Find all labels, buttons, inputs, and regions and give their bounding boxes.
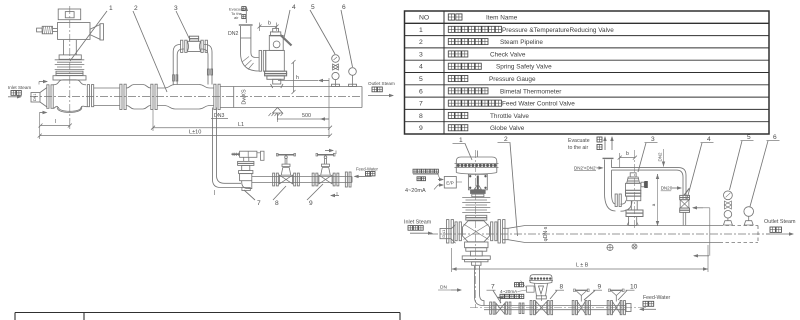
callouts 1-6 with leaders (right diagram) (453, 134, 780, 236)
feed-water label (left) (354, 166, 379, 178)
svg-text:DN2'×DN2': DN2'×DN2' (574, 165, 596, 170)
svg-text:b: b (268, 21, 271, 27)
svg-text:3: 3 (419, 51, 423, 58)
check valve (item 7 right) (490, 298, 524, 315)
h dimension (left) (292, 60, 300, 94)
feed control valve (item 8 right) (529, 275, 553, 315)
svg-text:Steam Pipeline: Steam Pipeline (500, 39, 543, 46)
a dimension (right) (651, 174, 659, 226)
svg-text:Pressure &TemperatureReducing: Pressure &TemperatureReducing Valve (502, 27, 614, 34)
PRV electric actuator with handwheel (item 1) (37, 9, 104, 40)
outlet steam label (right) (764, 219, 796, 236)
feed line end flange (right) (626, 304, 631, 312)
feed water drop pipe (right) (475, 266, 485, 306)
svg-text:DN3: DN3 (214, 113, 224, 119)
svg-text:5: 5 (747, 134, 751, 141)
svg-text:Feed Water Control Valve: Feed Water Control Valve (502, 101, 575, 108)
svg-text:7: 7 (491, 283, 495, 290)
svg-text:φDN·s: φDN·s (543, 226, 549, 241)
svg-text:6: 6 (773, 134, 777, 141)
throttle valve (item 4 right) (680, 188, 690, 225)
svg-text:8: 8 (275, 200, 279, 207)
flow direction symbols (left feed line) (325, 149, 339, 197)
svg-text:9: 9 (598, 283, 602, 290)
svg-text:b: b (626, 151, 629, 157)
globe valve (item 8, left) (273, 153, 300, 186)
svg-text:6: 6 (419, 88, 423, 95)
drain anchor symbols under pipe (right) (607, 244, 638, 251)
PRV valve body (item 1) (53, 6, 87, 121)
svg-text:3: 3 (174, 5, 178, 12)
pressure gauge assembly (item 5, left) (332, 55, 340, 87)
svg-text:DN2: DN2 (228, 31, 238, 37)
feed water line (right) (470, 306, 648, 310)
feed line end flange (left) (345, 172, 351, 187)
feed water line (left diagram) (252, 177, 352, 183)
actuator yoke and travel indicator (right item 1) (468, 150, 487, 308)
DwXS pipe size label (left) (242, 89, 248, 105)
svg-text:NO: NO (419, 14, 429, 21)
b dimension (right) (618, 151, 637, 168)
svg-text:Bimetal Thermometer: Bimetal Thermometer (500, 88, 562, 95)
anchor symbol under safety valve (left) (269, 108, 284, 121)
inlet steam label (right) (404, 220, 433, 235)
DN2 loop pipe to throttle valve (item 4 right) (612, 149, 687, 199)
svg-text:1: 1 (459, 137, 463, 144)
svg-text:l: l (55, 119, 56, 125)
L plus-minus 10 dimension (left) (38, 112, 332, 139)
svg-text:DN20: DN20 (661, 186, 673, 191)
PRV top flange, fins, yoke (item 1) (53, 40, 86, 80)
svg-text:2: 2 (504, 136, 508, 143)
svg-text:DN1: DN1 (441, 229, 446, 238)
svg-text:8: 8 (560, 283, 564, 290)
svg-text:5: 5 (419, 76, 423, 83)
svg-text:3: 3 (651, 136, 655, 143)
callouts 1-6 with leader lines (left diagram) (70, 4, 353, 92)
feed water control valve (item 7, left) (232, 151, 265, 190)
svg-text:4~20mA: 4~20mA (405, 188, 426, 194)
svg-text:2: 2 (134, 5, 138, 12)
svg-text:9: 9 (419, 125, 423, 132)
500 dimension (left) (278, 113, 330, 122)
svg-text:E/P: E/P (446, 180, 454, 185)
pressure gauge (item 5 right) (723, 191, 732, 225)
outlet steam label (left) (368, 81, 395, 97)
upper reference line with arrow (left) (278, 78, 329, 137)
DN2 discharge riser with elbow (left) (228, 25, 259, 71)
svg-text:Item Name: Item Name (486, 14, 518, 21)
svg-text:4: 4 (419, 64, 423, 71)
svg-text:500: 500 (302, 113, 311, 119)
outlet reducer cone (right) (503, 226, 525, 243)
svg-text:DwXS: DwXS (242, 89, 248, 105)
svg-text:a: a (651, 203, 656, 206)
globe valve (item 9 right) (572, 289, 590, 315)
L plus-minus B dimension (right) (452, 245, 708, 272)
globe valve (item 10 right) (607, 289, 625, 315)
control valve labels 4-20mA and E/P (right) (405, 169, 462, 194)
svg-text:L±10: L±10 (189, 130, 201, 136)
flow arrow at valve inlet (left) (39, 80, 48, 85)
svg-text:10: 10 (630, 283, 638, 290)
svg-text:1: 1 (419, 27, 423, 34)
svg-text:8: 8 (419, 113, 423, 120)
svg-text:L1: L1 (238, 122, 244, 128)
svg-text:Feed-Water: Feed-Water (356, 166, 379, 171)
b dimension (left) (258, 21, 279, 32)
inlet spool (right) (440, 225, 456, 244)
svg-text:4: 4 (292, 4, 296, 11)
DN1 rotated label (right inlet) (441, 229, 446, 238)
pipe size label phi DN (right) (543, 226, 549, 241)
bimetal thermometer (item 6 right) (744, 207, 754, 225)
svg-text:6: 6 (342, 4, 346, 11)
main steam pipe (left diagram) (30, 85, 362, 110)
svg-text:air: air (234, 15, 239, 20)
svg-text:DN1: DN1 (33, 93, 37, 101)
svg-text:L ± B: L ± B (576, 263, 589, 269)
bottom-left table fragment (15, 313, 400, 320)
svg-text:h: h (296, 75, 299, 81)
svg-text:4: 4 (707, 136, 711, 143)
svg-text:7: 7 (257, 200, 261, 207)
svg-text:Evacuate: Evacuate (568, 138, 590, 144)
svg-text:Outlet Steam: Outlet Steam (764, 219, 796, 225)
bimetal thermometer (item 6, left) (349, 68, 357, 87)
evacuate-to-air label (left) (229, 6, 248, 23)
globe valve (item 9, left) (312, 153, 339, 186)
DN3 label and L1 dimension (left) (151, 110, 332, 131)
bypass arch piping with check valve (item 3) (173, 36, 213, 84)
svg-text:5: 5 (311, 4, 315, 11)
spring safety valve (item 4, left) (259, 28, 291, 88)
callouts 7 8 9 (left diagram) (244, 184, 323, 207)
DN3 feed water riser (left) (213, 108, 243, 196)
labels for item 8 (right) (500, 281, 534, 299)
feed-water label (right) (639, 295, 670, 311)
l dimension (left) (39, 111, 72, 129)
svg-text:4~20mA: 4~20mA (500, 289, 518, 294)
svg-text:DN2: DN2 (658, 152, 663, 161)
control valve body (right item 1) (447, 220, 506, 266)
svg-text:Throttle Valve: Throttle Valve (490, 113, 529, 120)
DN label with arrow (right feed line) (438, 285, 462, 292)
main steam pipe (right diagram) (430, 226, 770, 243)
svg-text:to the air: to the air (568, 145, 588, 151)
svg-text:Spring Safety Valve: Spring Safety Valve (496, 64, 552, 71)
svg-text:Globe Valve: Globe Valve (490, 125, 525, 132)
svg-text:Inlet Steam: Inlet Steam (404, 220, 432, 226)
svg-text:DN: DN (440, 285, 447, 291)
finned bonnet (right item 1) (462, 198, 490, 221)
DN2'xDN2' label (right) (574, 165, 604, 170)
svg-text:Feed-Water: Feed-Water (643, 295, 670, 301)
safety valve assembly (item 3 right) (615, 150, 648, 228)
evacuate to the air label (right) (568, 136, 614, 151)
svg-text:Check Valve: Check Valve (490, 51, 526, 58)
svg-text:Pressure Gauge: Pressure Gauge (489, 76, 536, 83)
svg-text:Outlet Steam: Outlet Steam (368, 81, 395, 86)
svg-text:7: 7 (419, 101, 423, 108)
pipe flange pairs (left diagram) (47, 84, 220, 109)
evacuate riser pipe (right) (603, 158, 616, 211)
svg-text:9: 9 (309, 200, 313, 207)
callouts 7-10 (right diagram) (487, 283, 638, 303)
svg-text:2: 2 (419, 39, 423, 46)
parts list table (405, 11, 770, 134)
inlet steam label (left) (8, 85, 31, 99)
drain line from throttle valve (right) (692, 206, 710, 257)
diaphragm actuator chamber (right item 1) (455, 151, 499, 175)
svg-text:Inlet Steam: Inlet Steam (8, 85, 31, 90)
svg-text:1: 1 (109, 5, 113, 12)
